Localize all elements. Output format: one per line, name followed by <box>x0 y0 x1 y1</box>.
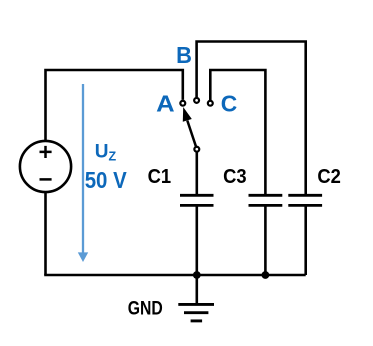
switch S1 arm with arrowhead pointing to A <box>183 107 196 146</box>
voltage source V1 <box>20 141 71 192</box>
svg-text:C2: C2 <box>317 166 341 188</box>
svg-text:B: B <box>176 42 192 68</box>
capacitor C1 <box>180 195 214 205</box>
svg-text:A: A <box>156 91 175 117</box>
svg-text:GND: GND <box>128 298 163 320</box>
switch pole contact <box>194 147 199 152</box>
wire: node C riser to C3 top <box>210 70 265 195</box>
svg-text:UZ: UZ <box>95 141 117 163</box>
svg-text:C3: C3 <box>223 166 247 188</box>
ground <box>178 275 214 321</box>
junction: C3 on bottom rail <box>262 271 270 279</box>
node B contact <box>194 98 199 103</box>
junction: C1 / GND on bottom rail <box>193 271 201 279</box>
wire: C3 bottom to bottom rail <box>264 205 267 275</box>
wire: node B riser to C2 top <box>197 42 306 196</box>
wire: C2 bottom to bottom rail <box>304 205 307 275</box>
node C contact <box>208 101 213 106</box>
wire: source top to node A riser <box>46 70 183 142</box>
wire: C1 bottom to bottom rail <box>196 205 199 275</box>
svg-text:C: C <box>221 91 238 117</box>
svg-text:C1: C1 <box>148 166 172 188</box>
capacitor C3 <box>249 195 283 205</box>
node A contact <box>180 101 185 106</box>
capacitor C2 <box>288 195 322 205</box>
wire: bottom rail <box>44 274 306 277</box>
wire: source bottom to bottom rail <box>44 192 47 275</box>
voltage arrow Uz (blue) <box>78 84 88 262</box>
wire: switch pole to C1 top <box>196 152 199 195</box>
svg-text:50 V: 50 V <box>85 167 128 193</box>
